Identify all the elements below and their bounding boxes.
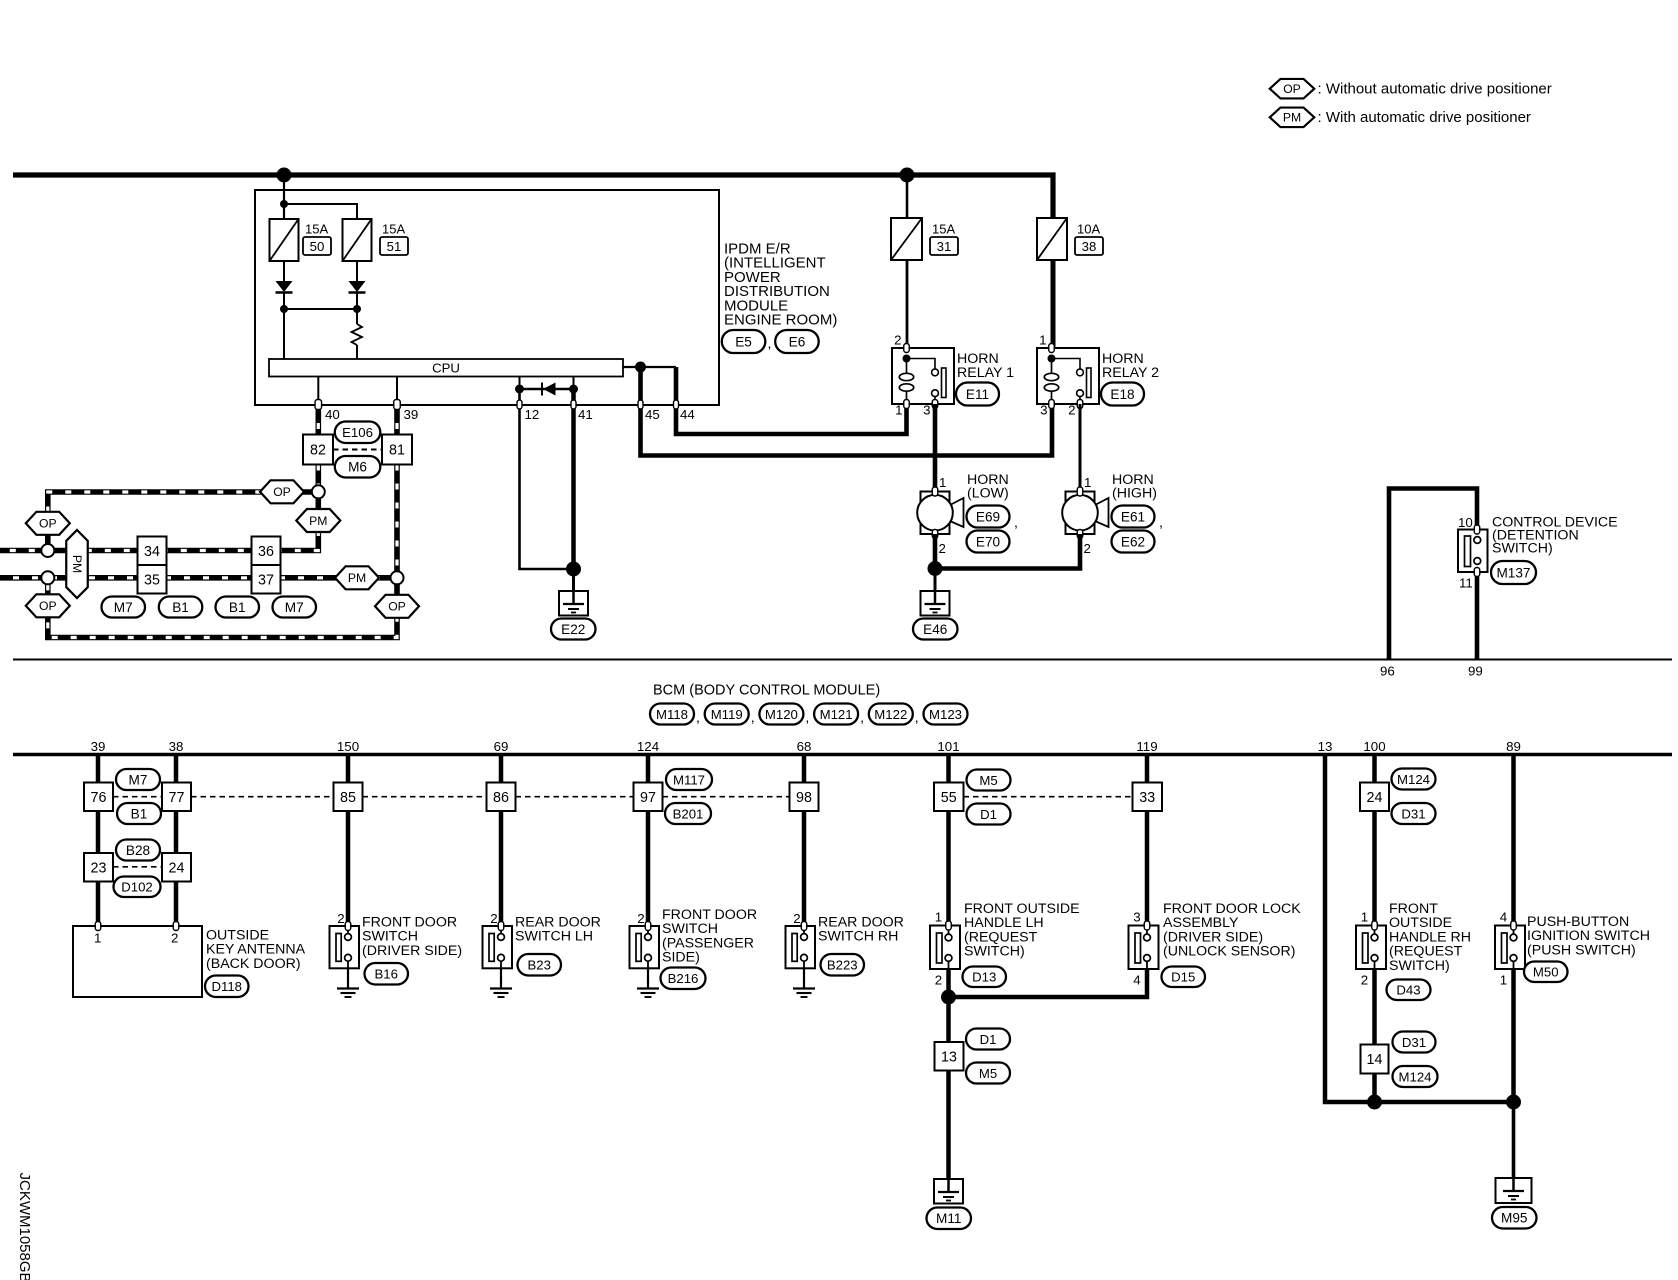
svg-text:E69: E69	[976, 509, 1000, 524]
wire to ground E22	[572, 569, 575, 603]
junction on bus at fuse 50 drop	[277, 168, 292, 183]
svg-text:2: 2	[793, 911, 800, 926]
svg-text:E22: E22	[561, 622, 585, 637]
svg-text:M50: M50	[1533, 965, 1559, 980]
svg-text:36: 36	[258, 544, 274, 560]
OP bypass row upper	[48, 492, 319, 545]
svg-text:,: ,	[915, 710, 919, 726]
junction dot at branch	[280, 200, 288, 208]
svg-text:D118: D118	[211, 979, 242, 994]
svg-text:2: 2	[171, 931, 178, 946]
wire to resistor	[356, 309, 358, 324]
svg-text:M124: M124	[1399, 1069, 1432, 1084]
svg-text:E6: E6	[789, 334, 806, 349]
wire relay2 pin2 to horn high	[1079, 404, 1082, 492]
chassis ground	[490, 987, 512, 989]
svg-text:39: 39	[404, 407, 419, 422]
control device detention switch box	[1458, 530, 1488, 573]
svg-text:RELAY 2: RELAY 2	[1102, 365, 1159, 381]
svg-text:M137: M137	[1496, 565, 1530, 580]
wire fuse 50 to diode	[283, 261, 285, 281]
svg-text:M123: M123	[929, 707, 962, 722]
svg-text:,: ,	[1014, 515, 1018, 531]
option split circles	[312, 485, 325, 498]
svg-text:15A: 15A	[305, 222, 328, 237]
ground M11	[934, 1179, 963, 1204]
svg-text:13: 13	[1318, 739, 1333, 754]
svg-text:2: 2	[490, 911, 497, 926]
svg-text:35: 35	[144, 572, 160, 588]
chassis ground	[337, 987, 359, 989]
svg-text:3: 3	[1040, 403, 1047, 418]
svg-text:4: 4	[1500, 910, 1507, 925]
svg-text:B1: B1	[229, 600, 246, 615]
svg-text:OP: OP	[39, 517, 57, 531]
connector 55	[934, 783, 964, 812]
B1 oval	[117, 803, 161, 824]
svg-text:45: 45	[645, 407, 660, 422]
wire pin 41 down	[571, 389, 576, 569]
svg-text:D15: D15	[1171, 970, 1195, 985]
wire bus to fuse 50	[283, 175, 285, 219]
svg-text:34: 34	[144, 544, 160, 560]
svg-text:B23: B23	[528, 958, 551, 973]
junction dot at 89 column	[1506, 1095, 1521, 1110]
svg-text:PM: PM	[348, 571, 366, 585]
wire junction to D15 pin4	[949, 969, 1148, 997]
connector 98	[790, 783, 819, 812]
svg-text:M120: M120	[765, 707, 798, 722]
svg-text:,: ,	[751, 710, 755, 726]
connector 81 box	[382, 435, 412, 465]
wire diode to junction	[356, 293, 358, 309]
svg-text:15A: 15A	[382, 222, 405, 237]
junction dot pin 45	[635, 362, 646, 373]
svg-text:14: 14	[1367, 1052, 1383, 1068]
svg-text:3: 3	[1133, 910, 1140, 925]
svg-text:2: 2	[939, 541, 946, 556]
wire fuse50 branch to fuse51	[284, 204, 357, 219]
connector 23	[84, 853, 113, 882]
wire D43 down through connector 14	[1372, 969, 1377, 1102]
wire switch to chassis ground	[803, 968, 805, 989]
wire fuse 51 to diode	[356, 261, 358, 281]
svg-text:PM: PM	[70, 555, 84, 573]
svg-text:SWITCH): SWITCH)	[1389, 958, 1450, 974]
svg-text:2: 2	[1068, 403, 1075, 418]
svg-text:2: 2	[1084, 541, 1091, 556]
wire to ground E46	[934, 569, 937, 604]
legend PM symbol	[1270, 108, 1315, 128]
connector 13	[935, 1042, 964, 1071]
fuse 51 (15A)	[343, 219, 372, 261]
svg-text:1: 1	[895, 403, 902, 418]
svg-text:40: 40	[325, 407, 340, 422]
wire BCM 38 to antenna pin2	[174, 755, 179, 927]
wire battery power bus	[13, 175, 1053, 218]
svg-text:M117: M117	[673, 772, 705, 787]
wire relay1 pin3 to horn low	[933, 404, 938, 492]
svg-text:37: 37	[258, 572, 274, 588]
horn relay 2 (E18)	[1037, 348, 1099, 404]
wire BCM to switch at x=804	[802, 755, 807, 927]
svg-text:98: 98	[796, 790, 812, 806]
PM tall hexagon	[66, 530, 88, 598]
connector 86	[487, 783, 516, 812]
svg-text:99: 99	[1468, 664, 1483, 679]
wire CPU pin 39	[396, 377, 398, 405]
svg-text:119: 119	[1136, 739, 1157, 754]
svg-text:,: ,	[1159, 515, 1163, 531]
junction on bus at fuse 31 drop	[900, 168, 915, 183]
PM hexagon below circle	[296, 509, 340, 532]
svg-text:M6: M6	[348, 460, 367, 475]
svg-text:D13: D13	[972, 970, 996, 985]
front door switch passenger side B216	[646, 755, 651, 927]
wire switch to chassis ground	[500, 968, 502, 989]
fuse 50 (15A)	[270, 219, 299, 261]
svg-text:D102: D102	[121, 880, 153, 895]
svg-text:86: 86	[493, 790, 509, 806]
E106 oval	[335, 422, 381, 444]
svg-text:PM: PM	[309, 514, 327, 528]
svg-text:100: 100	[1363, 739, 1385, 754]
svg-text:: With automatic drive positio: : With automatic drive positioner	[1318, 109, 1531, 126]
svg-text:,: ,	[860, 710, 864, 726]
svg-text:E70: E70	[976, 534, 1001, 549]
svg-text:1: 1	[935, 910, 942, 925]
IPDM E/R module box	[255, 190, 719, 405]
column 89 : push-button ignition switch	[1511, 755, 1516, 926]
svg-text:M118: M118	[656, 707, 688, 722]
svg-text:2: 2	[894, 333, 901, 348]
connector 24	[162, 853, 191, 882]
svg-text:13: 13	[941, 1049, 957, 1065]
PM row 1	[0, 492, 318, 551]
column 100 : front outside handle RH	[1372, 755, 1377, 927]
svg-text:M7: M7	[114, 600, 133, 615]
svg-text:55: 55	[941, 790, 957, 806]
svg-text:ENGINE ROOM): ENGINE ROOM)	[724, 312, 837, 329]
column 13 : BCM ground wire	[1325, 755, 1375, 1103]
wire resistor to CPU	[356, 345, 358, 359]
svg-text:B1: B1	[131, 806, 148, 821]
svg-text:2: 2	[637, 911, 644, 926]
OP hexagon on bypass row	[260, 480, 304, 503]
svg-text:(PUSH SWITCH): (PUSH SWITCH)	[1527, 942, 1636, 958]
wire BCM 39 to antenna pin1	[96, 755, 101, 927]
svg-text:CPU: CPU	[432, 360, 460, 375]
wire BCM pin 96 up-over to detention switch	[1389, 489, 1477, 660]
resistor inside IPDM	[352, 324, 363, 345]
svg-text:M122: M122	[874, 707, 907, 722]
wire pin 45 to horn relay 2 coil	[641, 367, 1053, 456]
connector 33	[1133, 783, 1163, 812]
svg-text:M124: M124	[1397, 772, 1430, 787]
svg-text:(BACK DOOR): (BACK DOOR)	[206, 956, 301, 972]
wire horn high pin2 to junction	[935, 534, 1080, 569]
wire fuse 31 to relay 1 pin 2	[906, 260, 909, 348]
diode between 12 and 41	[541, 383, 543, 396]
junction dot D13/D15	[941, 990, 956, 1005]
BCM bottom line	[13, 753, 1672, 757]
wire bus to fuse 31	[906, 175, 909, 218]
M6 oval	[335, 456, 381, 478]
D118 oval	[205, 976, 249, 998]
svg-text:B16: B16	[375, 967, 398, 982]
svg-text:JCKWM1058GB: JCKWM1058GB	[16, 1173, 33, 1280]
svg-text:B28: B28	[126, 843, 150, 858]
dashed link 82-81	[333, 449, 382, 451]
M7 oval	[116, 769, 160, 790]
svg-text:82: 82	[310, 443, 326, 459]
svg-text:38: 38	[169, 739, 184, 754]
svg-text:77: 77	[169, 790, 185, 806]
connector E5 oval	[722, 330, 766, 353]
svg-text:M7: M7	[285, 600, 304, 615]
svg-text:E11: E11	[966, 387, 989, 402]
connector 81	[394, 404, 400, 435]
svg-text:(UNLOCK SENSOR): (UNLOCK SENSOR)	[1163, 944, 1295, 960]
svg-text:B201: B201	[673, 806, 704, 821]
svg-text:M121: M121	[820, 707, 853, 722]
diode below fuse 50	[276, 281, 293, 292]
svg-text:1: 1	[1084, 475, 1091, 490]
front door lock assembly unlock sensor D15	[1129, 926, 1159, 970]
svg-text:SWITCH LH: SWITCH LH	[515, 929, 593, 945]
svg-text:PM: PM	[1283, 111, 1301, 125]
dashed chain 76-77-85-86-97-98	[113, 796, 162, 798]
wire CPU pin 40	[317, 377, 319, 405]
wire diode to junction	[283, 293, 285, 309]
svg-text:33: 33	[1139, 790, 1155, 806]
svg-text:M5: M5	[979, 1066, 997, 1081]
svg-text:24: 24	[1367, 790, 1383, 806]
junction dot above E22	[566, 562, 581, 577]
horn relay 1 (E11)	[892, 348, 954, 404]
dashed link 55-33	[964, 796, 1133, 798]
svg-text:SIDE): SIDE)	[662, 950, 700, 966]
door switch B23	[483, 926, 513, 968]
wire junction to CPU	[283, 309, 285, 359]
svg-text:SWITCH RH: SWITCH RH	[818, 929, 898, 945]
OP hexagon right bottom	[375, 595, 419, 618]
junction dot at 100 column	[1367, 1095, 1382, 1110]
svg-text:,: ,	[805, 710, 809, 726]
legend OP symbol	[1270, 79, 1315, 99]
svg-text:BCM (BODY CONTROL MODULE): BCM (BODY CONTROL MODULE)	[653, 683, 880, 699]
ground E46	[921, 591, 950, 616]
svg-text:1: 1	[939, 475, 946, 490]
svg-text:,: ,	[768, 336, 772, 352]
door switch B223	[786, 926, 816, 968]
wire CPU pin 41 upper	[573, 377, 575, 390]
fuse 31 (15A)	[891, 218, 922, 260]
BCM connector ovals	[650, 704, 694, 725]
svg-text:2: 2	[1361, 973, 1368, 988]
dashed link 23-24	[113, 866, 162, 868]
svg-text:1: 1	[1039, 333, 1046, 348]
wire CPU pin 12 upper	[519, 377, 521, 390]
svg-text:15A: 15A	[932, 222, 955, 237]
wire junction to ground M95	[1512, 1102, 1516, 1192]
connector 76	[84, 783, 113, 812]
wire M50 to junction	[1511, 969, 1516, 1102]
svg-text:51: 51	[387, 239, 402, 254]
column 101 : front outside handle LH	[946, 755, 951, 926]
svg-text:68: 68	[797, 739, 812, 754]
connector 14	[1361, 1045, 1389, 1074]
svg-text:OP: OP	[273, 485, 291, 499]
connector 82 (E106/M6)	[315, 404, 321, 435]
connector 24	[1360, 783, 1389, 812]
front outside handle RH request switch D43	[1356, 926, 1386, 970]
svg-text:E106: E106	[342, 425, 373, 440]
section separator line	[13, 659, 1672, 661]
svg-text:D31: D31	[1401, 806, 1425, 821]
wire to ground M11	[946, 1071, 951, 1193]
svg-text:89: 89	[1506, 739, 1521, 754]
svg-text:D1: D1	[980, 807, 997, 822]
svg-text:OP: OP	[388, 600, 406, 614]
svg-text:SWITCH): SWITCH)	[964, 944, 1025, 960]
svg-text:E61: E61	[1121, 509, 1145, 524]
svg-text:81: 81	[389, 443, 405, 459]
push-button ignition switch M50	[1495, 926, 1525, 970]
svg-text:E62: E62	[1121, 534, 1145, 549]
svg-text:E46: E46	[923, 622, 947, 637]
svg-text:24: 24	[169, 860, 185, 876]
svg-text:D43: D43	[1396, 983, 1420, 998]
svg-text:85: 85	[340, 790, 356, 806]
wire cross link to M95	[1375, 1100, 1514, 1105]
svg-text:69: 69	[494, 739, 509, 754]
wire horn low pin2 to ground junction	[933, 534, 938, 569]
svg-text:31: 31	[937, 239, 952, 254]
svg-text:50: 50	[310, 239, 325, 254]
svg-text:(DRIVER SIDE): (DRIVER SIDE)	[362, 943, 462, 959]
row 1 left stub + circle	[0, 575, 397, 581]
svg-text:M119: M119	[711, 707, 743, 722]
horn low (E69/E70)	[921, 492, 950, 535]
CPU box	[269, 359, 623, 377]
svg-text:M95: M95	[1501, 1211, 1527, 1226]
wire fuse 38 to relay 2 pin 1	[1051, 260, 1056, 348]
svg-text:38: 38	[1082, 239, 1097, 254]
ground M95	[1496, 1178, 1532, 1203]
svg-text:39: 39	[91, 739, 106, 754]
svg-text:12: 12	[525, 407, 540, 422]
svg-text:1: 1	[94, 931, 101, 946]
svg-text:OP: OP	[1283, 82, 1301, 96]
svg-text:10: 10	[1458, 515, 1473, 530]
wire BCM to switch at x=501	[499, 755, 504, 927]
fuse 38 (10A)	[1037, 218, 1067, 260]
svg-text:150: 150	[337, 739, 359, 754]
connector 82 box	[303, 435, 333, 465]
svg-text:RELAY 1: RELAY 1	[957, 365, 1014, 381]
wire junction down to connector 13	[946, 997, 951, 1042]
svg-text:101: 101	[937, 739, 959, 754]
wire D13 pin2 to junction	[946, 969, 951, 997]
svg-text:1: 1	[1500, 973, 1507, 988]
svg-text:D31: D31	[1402, 1035, 1426, 1050]
svg-text:44: 44	[680, 407, 695, 422]
vertical from 81 circle down (OP)	[48, 578, 397, 638]
svg-text:B1: B1	[172, 600, 189, 615]
svg-text:M5: M5	[979, 773, 997, 788]
PM hexagon row 2	[335, 566, 379, 589]
svg-text:: Without automatic drive posi: : Without automatic drive positioner	[1318, 81, 1552, 98]
svg-text:(LOW): (LOW)	[967, 486, 1009, 502]
svg-text:76: 76	[91, 790, 107, 806]
svg-text:23: 23	[91, 860, 107, 876]
svg-text:3: 3	[923, 403, 930, 418]
chassis ground	[793, 987, 815, 989]
svg-text:11: 11	[1459, 576, 1473, 591]
front outside handle LH request switch D13	[930, 926, 960, 970]
svg-text:(HIGH): (HIGH)	[1112, 486, 1157, 502]
svg-text:41: 41	[578, 407, 593, 422]
svg-text:96: 96	[1380, 664, 1395, 679]
svg-text:B223: B223	[827, 958, 858, 973]
wire BCM to switch at x=348	[346, 755, 351, 927]
svg-text:,: ,	[696, 710, 700, 726]
svg-text:SWITCH): SWITCH)	[1492, 541, 1553, 557]
wire CPU right to pins 45/44	[623, 366, 676, 368]
connector boxes 34/35/36/37	[138, 537, 167, 566]
svg-text:B216: B216	[668, 971, 699, 986]
svg-text:2: 2	[337, 911, 344, 926]
svg-text:97: 97	[640, 790, 656, 806]
column 119 : front door lock assembly	[1145, 755, 1150, 926]
svg-text:D1: D1	[980, 1032, 997, 1047]
svg-text:E18: E18	[1110, 387, 1134, 402]
ground E22	[559, 591, 588, 616]
svg-text:2: 2	[935, 973, 942, 988]
wire pin 44 to horn relay 1 coil	[676, 367, 907, 434]
svg-text:4: 4	[1133, 973, 1140, 988]
svg-text:10A: 10A	[1077, 222, 1100, 237]
svg-text:OP: OP	[39, 599, 57, 613]
wire switch to chassis ground	[347, 968, 349, 989]
door switch B16	[330, 926, 360, 968]
connector E6 oval	[775, 330, 819, 353]
junction dot horns	[928, 561, 943, 576]
B28 oval	[116, 840, 160, 861]
wire diode row 12-41	[520, 388, 574, 390]
svg-text:1: 1	[1361, 910, 1368, 925]
outside key antenna box	[73, 926, 202, 997]
horn high (E61/E62)	[1066, 492, 1095, 535]
harness ovals M7/B1/B1/M7	[102, 597, 146, 618]
wire detention switch to BCM pin 99	[1475, 564, 1480, 659]
wire pin 12 down	[520, 389, 574, 569]
svg-text:124: 124	[637, 739, 659, 754]
OP hexagon left bottom	[26, 594, 70, 617]
D102 oval	[114, 877, 161, 898]
connector 77	[162, 783, 191, 812]
wire junction link	[284, 308, 357, 310]
connector 85	[334, 783, 363, 812]
svg-text:M7: M7	[129, 772, 148, 787]
diode below fuse 51	[349, 281, 366, 292]
svg-text:M11: M11	[936, 1211, 961, 1226]
svg-text:E5: E5	[735, 334, 752, 349]
OP hexagon left top	[26, 512, 70, 535]
